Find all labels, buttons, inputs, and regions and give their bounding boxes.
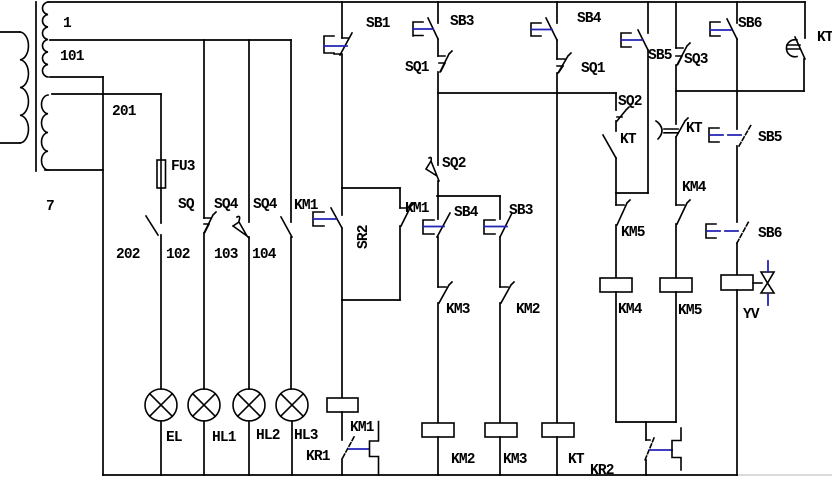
bottom window border line: [737, 474, 832, 476]
limit switch SQ2 second: [616, 107, 629, 131]
wire HL2 column top: [248, 40, 250, 222]
svg-text:HL3: HL3: [294, 428, 318, 444]
svg-text:SB5: SB5: [758, 130, 782, 146]
svg-text:KM3: KM3: [446, 302, 470, 318]
svg-text:SB1: SB1: [366, 16, 391, 32]
svg-text:101: 101: [60, 49, 85, 65]
transformer secondary winding upper (taps 1 and 101): [42, 2, 48, 77]
timer contact KT (NO delayed, top right): [786, 37, 805, 91]
svg-text:202: 202: [116, 247, 140, 263]
limit switch SQ1: [438, 51, 452, 165]
wire winding mid tap to node 7: [50, 76, 103, 78]
timer contact KT (NO delayed, arc): [656, 118, 688, 205]
limit switch SQ1 second: [557, 53, 571, 423]
svg-text:KR2: KR2: [590, 463, 614, 479]
svg-text:7: 7: [46, 199, 54, 215]
svg-text:KT: KT: [568, 452, 585, 468]
pushbutton SB4 (NC): [531, 18, 557, 59]
limit switch SQ4 (arrow type): [233, 217, 249, 390]
transformer secondary winding lower (201): [42, 95, 48, 170]
coil KM3: [485, 423, 517, 437]
wire bottom rail: [103, 474, 737, 476]
coil KT: [542, 423, 574, 437]
wire 201 horizontal: [52, 93, 161, 95]
svg-text:KT: KT: [620, 132, 637, 148]
wire KR2 stem: [645, 422, 647, 440]
pushbutton SB5 (NC): [621, 30, 648, 193]
pushbutton SB6 (NC): [710, 19, 737, 129]
lamp HL2: [233, 389, 265, 475]
wire KM4 coil down: [615, 292, 617, 422]
contact KM5 (NO): [616, 193, 630, 278]
wire SB4 column top: [556, 2, 558, 23]
wire KM4 column from mid rail: [615, 93, 617, 110]
svg-text:102: 102: [166, 247, 190, 263]
svg-text:YV: YV: [743, 307, 760, 323]
svg-text:KT: KT: [817, 30, 832, 46]
svg-text:SQ4: SQ4: [253, 197, 278, 213]
wire HL1 column top: [203, 40, 205, 218]
switch SQ4 (plain blade): [281, 217, 292, 389]
limit switch SQ3: [676, 43, 690, 91]
wire mid rail left: [438, 92, 616, 94]
svg-text:SB5: SB5: [648, 48, 672, 64]
contact KM4 (NO): [676, 200, 690, 278]
contact KM1 (NO, right path): [400, 188, 414, 300]
transformer T primary winding: [0, 32, 28, 143]
contact KM2 (NO): [500, 282, 514, 423]
svg-text:HL1: HL1: [212, 430, 237, 446]
svg-text:SR2: SR2: [356, 225, 372, 249]
svg-text:SQ1: SQ1: [581, 61, 606, 77]
limit switch SQ: [204, 212, 216, 389]
svg-text:KM5: KM5: [678, 303, 702, 319]
wire winding bottom to node 7: [45, 169, 103, 171]
svg-text:KM4: KM4: [682, 180, 707, 196]
coil KM2: [422, 423, 454, 437]
wire parallel branch bottom: [342, 299, 400, 301]
wire KT column top right: [804, 2, 806, 38]
wire SB5 joint: [616, 192, 648, 194]
svg-text:SB4: SB4: [577, 11, 602, 27]
svg-text:SQ: SQ: [178, 197, 195, 213]
wire SB3 column top: [437, 2, 439, 23]
wire HL3 column top: [290, 40, 292, 222]
coil KM5: [660, 278, 692, 292]
wire KM5 coil down: [675, 292, 677, 422]
switch on lamp EL branch: [146, 188, 161, 389]
svg-text:KM2: KM2: [451, 452, 475, 468]
wire SQ3 column top: [675, 2, 677, 48]
svg-text:KT: KT: [686, 121, 703, 137]
coil KM4: [600, 278, 632, 292]
thermal overload contact KR1: [342, 422, 379, 476]
svg-text:SQ3: SQ3: [684, 52, 708, 68]
wire SB6 column top: [736, 2, 738, 23]
wire rail 1 (top rail): [48, 1, 805, 3]
coil KM1: [327, 398, 358, 412]
wire YV coil down: [736, 290, 738, 475]
wire SB5 column top: [647, 2, 649, 33]
contact KM3 (NO): [438, 282, 452, 423]
svg-text:SB6: SB6: [738, 16, 762, 32]
wire rail 101: [50, 39, 291, 41]
svg-text:SB3: SB3: [509, 203, 533, 219]
svg-text:1: 1: [63, 16, 72, 32]
pushbutton SB3 mid (NO): [484, 196, 512, 287]
svg-text:SQ2: SQ2: [442, 156, 466, 172]
svg-text:KM5: KM5: [621, 225, 645, 241]
wire 7 vertical return: [102, 77, 104, 475]
svg-text:SQ4: SQ4: [214, 197, 239, 213]
svg-text:KM1: KM1: [350, 420, 375, 436]
transformer core: [35, 2, 37, 171]
wire coil KM1 to KR1: [341, 412, 343, 440]
wire KM4/KM5 merge: [616, 421, 676, 423]
svg-text:SQ1: SQ1: [405, 60, 430, 76]
svg-text:201: 201: [112, 104, 137, 120]
wire SB1 column top: [341, 2, 343, 38]
svg-text:103: 103: [214, 247, 238, 263]
pushbutton SB5 (NO): [709, 125, 751, 222]
svg-text:KM1: KM1: [294, 198, 319, 214]
svg-text:SB6: SB6: [758, 226, 782, 242]
wire to coil KM1: [341, 300, 343, 398]
wire below junction: [675, 91, 677, 124]
svg-text:KM3: KM3: [503, 452, 527, 468]
svg-text:SB4: SB4: [454, 205, 479, 221]
wire mid rail right: [676, 90, 804, 92]
solenoid valve symbol YV: [753, 261, 774, 305]
limit switch SQ2 (arrow type): [426, 157, 439, 196]
fuse FU3: [157, 94, 166, 188]
svg-text:KR1: KR1: [306, 449, 331, 465]
coil YV: [721, 275, 753, 290]
svg-text:KM2: KM2: [516, 302, 540, 318]
lamp HL1: [188, 389, 220, 475]
thermal overload contact KR2: [645, 428, 681, 475]
svg-text:SB3: SB3: [450, 14, 474, 30]
pushbutton SB3 (NC): [413, 18, 438, 56]
svg-text:EL: EL: [166, 430, 182, 446]
pushbutton SB1 (NC): [324, 33, 352, 188]
timer contact KT (NC delayed): [603, 135, 616, 193]
lamp EL: [145, 389, 177, 475]
svg-text:104: 104: [252, 247, 277, 263]
svg-text:KM1: KM1: [405, 201, 430, 217]
wire branch SB4/SB3 top: [437, 195, 500, 197]
lamp HL3: [276, 389, 308, 475]
svg-text:HL2: HL2: [256, 428, 280, 444]
svg-text:FU3: FU3: [171, 159, 195, 175]
pushbutton SB6 (NO): [706, 221, 749, 275]
contact KM1 (button-operated, blue link): [313, 188, 342, 300]
wire parallel branch top: [342, 187, 400, 189]
svg-text:KM4: KM4: [618, 302, 643, 318]
pushbutton SB4 (NO): [423, 196, 450, 287]
svg-text:SQ2: SQ2: [618, 94, 642, 110]
